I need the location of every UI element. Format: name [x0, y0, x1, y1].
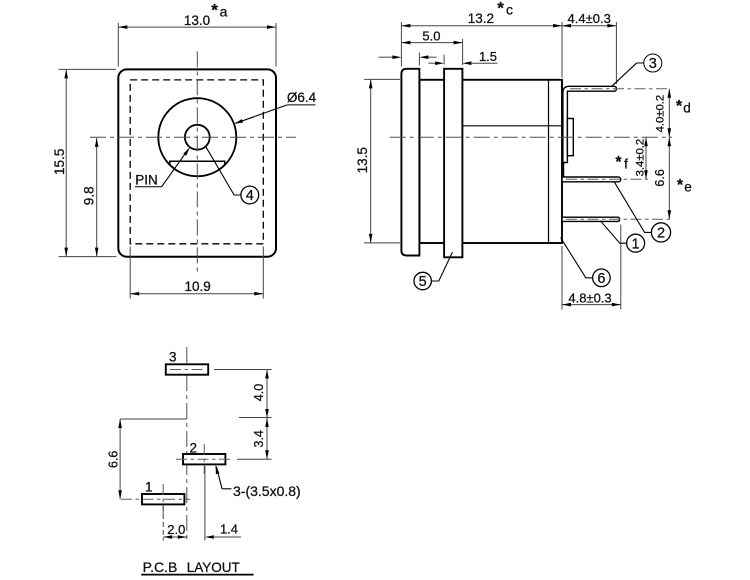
pad size note 3-(3.5x0.8) [216, 467, 222, 489]
dimension 6.6 side [668, 137, 670, 219]
bezel thickness arrows [379, 56, 394, 58]
callout 4 [206, 146, 241, 195]
svg-text:Ø6.4: Ø6.4 [287, 90, 317, 105]
svg-text:2: 2 [190, 440, 198, 455]
svg-text:4.0±0.2: 4.0±0.2 [654, 95, 666, 133]
dimension 5.0 [462, 39, 464, 65]
svg-text:1: 1 [145, 480, 153, 495]
dimension 4.4 +/- 0.3 [615, 22, 617, 84]
pad 2 [183, 454, 225, 464]
dimension 9.8 [96, 138, 98, 257]
svg-text:6.6: 6.6 [106, 451, 120, 468]
dimension 15.5 height [59, 68, 117, 70]
svg-text:4.0: 4.0 [252, 384, 266, 401]
dimension 13.2 [400, 22, 402, 67]
pcb dimension 2.0 [162, 506, 164, 541]
svg-text:2.0: 2.0 [167, 522, 185, 537]
body inner wall line [548, 80, 550, 243]
svg-text:1.5: 1.5 [479, 49, 497, 64]
label dia 6.4 with leader [287, 104, 315, 106]
callout 3 [612, 63, 644, 86]
pin 1 (lower terminal) [562, 217, 620, 221]
svg-text:9.8: 9.8 [82, 186, 97, 205]
svg-text:6.6: 6.6 [653, 169, 667, 186]
side view main body [420, 80, 563, 243]
pad 1 [142, 494, 184, 504]
center terminal tab [567, 119, 573, 156]
small step below tab [563, 163, 565, 178]
dimension 4.0 +/- 0.2 [668, 89, 670, 138]
svg-text:*: * [211, 1, 218, 20]
svg-text:4.8±0.3: 4.8±0.3 [568, 291, 611, 306]
svg-text:4: 4 [246, 188, 254, 204]
pad 2 center dashes [176, 458, 232, 460]
pcb dimension 1.4 [205, 535, 214, 539]
pcb dimension 3.4 [237, 458, 272, 460]
svg-text:LAYOUT: LAYOUT [187, 559, 240, 575]
side view centerline [390, 136, 672, 138]
svg-text:a: a [220, 4, 228, 20]
dimension 3.4 +/- 0.2 [645, 137, 647, 179]
pad 1 center dashes [121, 498, 190, 500]
svg-text:*: * [676, 98, 683, 115]
svg-text:4.4±0.3: 4.4±0.3 [568, 11, 611, 26]
pad 3 [166, 364, 208, 374]
svg-text:13.2: 13.2 [468, 11, 494, 26]
front view horizontal centerline [90, 136, 296, 138]
pcb main centerline [186, 347, 188, 542]
svg-text:3: 3 [169, 350, 177, 365]
callout 5 [431, 252, 452, 281]
svg-text:3.4: 3.4 [252, 430, 266, 447]
pcb dimension 4.0 [214, 369, 272, 371]
pin 2 (middle terminal) [562, 177, 621, 182]
dimension 13.5 [364, 78, 400, 80]
svg-text:1: 1 [632, 236, 640, 252]
pin 3 (bent up terminal) [563, 86, 617, 162]
svg-text:P.C.B: P.C.B [143, 559, 178, 575]
mounting flange [444, 69, 462, 257]
svg-text:*: * [677, 177, 684, 194]
dimension 10.9 [129, 247, 131, 299]
pcb dimension 6.6 [119, 419, 121, 499]
callout 2 [614, 182, 651, 233]
front view vertical centerline [196, 51, 198, 271]
dimension 1.5 flange [428, 62, 435, 64]
svg-text:5: 5 [419, 274, 427, 290]
callout 1 [600, 221, 626, 244]
svg-text:10.9: 10.9 [184, 279, 210, 294]
body step line [462, 125, 562, 127]
reference line [120, 418, 187, 420]
barrel opening circle dia 6.4 [158, 98, 236, 176]
svg-text:PIN: PIN [135, 172, 158, 187]
pin 1 centerline [566, 218, 671, 220]
svg-text:3-(3.5x0.8): 3-(3.5x0.8) [233, 483, 301, 499]
front view hidden inner outline (dashed) [130, 80, 263, 244]
center pin circle [185, 125, 210, 150]
svg-text:c: c [506, 2, 513, 18]
svg-text:e: e [684, 180, 692, 195]
svg-text:6: 6 [597, 271, 605, 287]
svg-text:*: * [497, 0, 504, 18]
svg-text:15.5: 15.5 [52, 149, 67, 175]
svg-text:5.0: 5.0 [422, 29, 440, 44]
flat chord inside barrel [170, 161, 225, 165]
svg-text:1.4: 1.4 [220, 522, 238, 537]
callout 6 [561, 238, 593, 278]
svg-text:d: d [683, 101, 691, 116]
pin 2 centerline [566, 178, 648, 180]
svg-text:3: 3 [649, 56, 657, 72]
svg-text:f: f [624, 157, 628, 172]
dimension 13.0 width [117, 23, 119, 67]
svg-text:3.4±0.2: 3.4±0.2 [635, 139, 647, 177]
front view outer body [118, 69, 276, 256]
pin 3 centerline [570, 88, 671, 90]
svg-text:*: * [615, 154, 622, 171]
dimension 4.8 +/- 0.3 [561, 246, 563, 310]
svg-text:13.0: 13.0 [184, 13, 210, 28]
pad 3 center dash [170, 369, 205, 371]
svg-text:13.5: 13.5 [355, 147, 370, 173]
svg-text:2: 2 [657, 226, 665, 242]
front bezel [401, 69, 419, 256]
